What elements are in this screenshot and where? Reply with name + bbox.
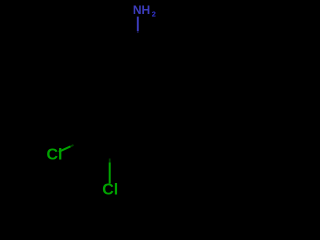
wire: bond C2-ring ipso bbox=[108, 64, 120, 82]
bond stub Cl1 fade tail bbox=[71, 145, 74, 146]
hidden carbon skeleton (black on black): ethylamine chain and benzene ring bbox=[72, 31, 149, 162]
svg-text:Cl: Cl bbox=[47, 147, 63, 164]
bond stub Cl1 (green half of C3-Cl bond) bbox=[59, 146, 71, 151]
bond stub N (blue half of N-CH2 bond) bbox=[137, 17, 139, 31]
wire: black half of C3-Cl bond bbox=[72, 138, 88, 146]
svg-text:Cl: Cl bbox=[102, 182, 118, 199]
bond stub Cl2 fade tail bbox=[109, 159, 111, 163]
wire: black half of N-C1 bond bbox=[137, 31, 139, 49]
svg-text:NH: NH bbox=[133, 3, 150, 17]
benzene ring bbox=[88, 82, 149, 150]
svg-text:2: 2 bbox=[152, 10, 156, 19]
wire: bond C1-C2 bbox=[108, 49, 138, 64]
bond stub N fade tail bbox=[137, 31, 139, 33]
wire: black half of C4-Cl bond bbox=[110, 148, 112, 162]
bond stub Cl2 (green half of C4-Cl bond) bbox=[109, 163, 111, 184]
